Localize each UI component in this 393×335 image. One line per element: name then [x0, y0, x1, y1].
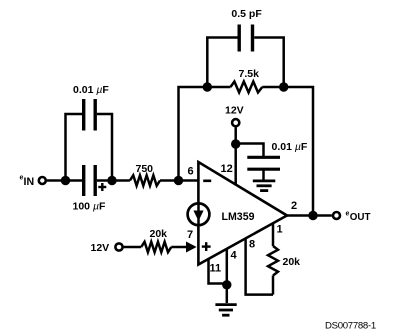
wire node G to C4: [236, 144, 264, 157]
resistor R1 750: [130, 175, 160, 185]
wire output apex to eOUT: [287, 214, 332, 217]
wire feedback: node C up, across, down to node F (output): [179, 87, 231, 181]
wire pin 8 down and right to R4 bottom: [246, 238, 273, 294]
svg-text:1: 1: [277, 224, 283, 236]
wire R4 bottom: [272, 276, 275, 295]
plus sign non-inverting input: [202, 245, 211, 247]
svg-text:IN: IN: [24, 176, 35, 188]
wire C2 right plate to node B: [97, 179, 112, 182]
svg-text:0.5 pF: 0.5 pF: [231, 8, 262, 20]
arrowhead into pin 7: [186, 242, 197, 253]
terminal 12V top: [232, 119, 239, 126]
terminal 12V left: [115, 243, 122, 250]
svg-text:4: 4: [231, 250, 238, 262]
svg-text:6: 6: [188, 166, 194, 178]
wire C3 right down to node E: [254, 38, 284, 88]
capacitor C2 100uF plates: [82, 165, 85, 196]
node F junction (output): [308, 211, 317, 220]
wire node B to R1: [112, 179, 130, 182]
resistor R2 7.5k: [231, 82, 263, 93]
svg-text:7: 7: [187, 229, 193, 241]
node C junction (pin 6 net): [174, 176, 183, 185]
wire node A up and top branch left: [66, 114, 83, 181]
wire R3 to pin 7 arrow: [171, 246, 188, 249]
svg-text:20k: 20k: [150, 228, 168, 240]
capacitor C3 0.5pF plates: [237, 25, 240, 52]
ground (U1): [215, 305, 236, 316]
svg-text:12: 12: [221, 163, 233, 175]
wire pin 11 to ground node: [209, 259, 227, 284]
capacitor C1 0.01uF plates: [82, 99, 85, 131]
wire node D up to C3 left: [207, 38, 237, 88]
node B junction: [107, 176, 116, 185]
svg-text:LM359: LM359: [222, 211, 255, 223]
svg-text:100 µF: 100 µF: [73, 201, 107, 213]
svg-text:7.5k: 7.5k: [239, 68, 260, 80]
svg-text:2: 2: [291, 200, 297, 212]
current source symbol on U1 left edge: [188, 203, 210, 225]
svg-text:DS007788-1: DS007788-1: [325, 320, 376, 331]
wire 12V to R3: [124, 246, 142, 249]
wire 12V to pin 12: [234, 127, 237, 185]
svg-text:0.01 µF: 0.01 µF: [272, 141, 308, 153]
svg-text:OUT: OUT: [350, 212, 371, 223]
svg-text:20k: 20k: [283, 256, 301, 268]
ground (bypass cap): [253, 181, 275, 191]
wire pin 4 to ground: [226, 249, 229, 303]
node E junction (right of R2): [279, 82, 288, 91]
svg-text:11: 11: [210, 263, 222, 275]
node A junction: [61, 176, 70, 185]
wire top branch right down to node B: [97, 114, 112, 181]
label + polarity C2: [98, 186, 106, 188]
wire eIN to node A: [47, 179, 66, 182]
svg-text:0.01 µF: 0.01 µF: [73, 84, 109, 96]
svg-text:12V: 12V: [91, 242, 110, 254]
wire R1 to node C: [160, 179, 198, 182]
resistor R4 20k: [268, 246, 278, 276]
svg-text:8: 8: [249, 239, 255, 251]
wire C4 to ground: [262, 171, 265, 181]
node G junction (12V branch): [231, 139, 240, 148]
svg-text:750: 750: [136, 163, 154, 175]
wire node A to C2 left plate: [66, 179, 83, 182]
wire R2 right to corner and down to node F: [262, 87, 313, 216]
capacitor C4 0.01uF plates: [247, 156, 280, 159]
node D junction (left of R2): [203, 82, 212, 91]
terminal eOUT: [333, 212, 340, 219]
terminal eIN: [39, 177, 46, 184]
resistor R3 20k: [141, 242, 171, 252]
wire pin 1 down to R4: [272, 223, 275, 246]
node H junction (pins 4 and 11): [222, 280, 231, 289]
minus sign inverting input: [203, 180, 211, 183]
svg-text:12V: 12V: [225, 105, 244, 117]
op-amp U1 LM359 triangle: [198, 162, 287, 265]
